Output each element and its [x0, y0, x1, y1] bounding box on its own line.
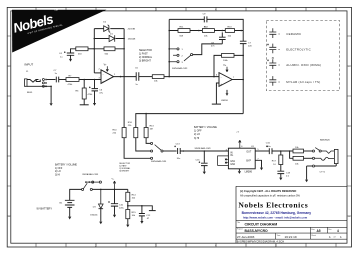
wire R7 to opamp	[79, 79, 101, 81]
svg-text:OUT: OUT	[246, 152, 251, 154]
node feedback rail	[242, 55, 244, 57]
svg-text:J1: J1	[26, 71, 29, 73]
svg-text:2: 2	[99, 68, 101, 70]
svg-text:1N4148: 1N4148	[128, 39, 136, 41]
node 56k row left	[94, 48, 96, 50]
resistor R12tone	[144, 125, 154, 137]
resistor R13	[225, 27, 234, 38]
wire diode row	[94, 38, 124, 40]
svg-text:CIRCUIT DIAGRAM: CIRCUIT DIAGRAM	[245, 223, 278, 227]
svg-text:C15: C15	[196, 160, 201, 162]
wire zener row	[94, 28, 124, 30]
svg-text:10u: 10u	[177, 158, 181, 160]
wire C6 to ground	[94, 91, 96, 103]
capacitor C12	[139, 214, 151, 220]
bus wire to tone resistors	[136, 114, 243, 128]
svg-text:+: +	[220, 82, 222, 86]
wire D3 to ground	[100, 209, 102, 222]
node V+ C10	[114, 189, 116, 191]
zener diode D2 ZD3.9B	[103, 22, 135, 33]
svg-text:R15: R15	[132, 212, 137, 214]
ground bar IC1B	[212, 103, 221, 105]
svg-text:-: -	[103, 72, 104, 76]
svg-text:CERAMIC: CERAMIC	[286, 32, 301, 36]
wire Vref to C12 and ground	[128, 206, 153, 211]
svg-text:47: 47	[147, 218, 150, 220]
svg-text:ZD3.9B: ZD3.9B	[128, 29, 136, 31]
node IC1A output	[120, 76, 122, 78]
svg-text:100u: 100u	[266, 146, 272, 148]
wire C15 down	[203, 151, 205, 163]
ground arrow under D3	[99, 222, 102, 225]
svg-text:IN-: IN-	[230, 155, 233, 157]
wire C7 to R7	[59, 79, 66, 81]
node stage2 row left	[168, 30, 170, 32]
wire R10tone bottom to contact3	[124, 138, 150, 159]
svg-text:=: =	[278, 48, 280, 52]
svg-text:Rev: Rev	[328, 229, 331, 231]
svg-text:BYP: BYP	[246, 161, 251, 163]
node jack sleeve	[50, 86, 52, 88]
svg-text:BATTERY / VOLUME: BATTERY / VOLUME	[55, 163, 77, 166]
svg-text:D3: D3	[93, 207, 97, 209]
svg-text:1M: 1M	[150, 128, 153, 130]
svg-text:470k: 470k	[68, 84, 74, 86]
stage2 resistor row wire	[169, 30, 243, 32]
svg-text:=: =	[278, 32, 280, 36]
svg-text:R16: R16	[128, 122, 133, 124]
input jack BU01	[25, 63, 51, 94]
svg-text:+V: +V	[236, 132, 239, 134]
ground bar under R6	[80, 104, 89, 106]
op-amp IC1B	[216, 73, 235, 102]
svg-text:100k: 100k	[223, 60, 229, 62]
node B	[94, 79, 96, 81]
svg-text:B:\SPBO\MP\MYCRO\DIAGRAM_4.SCH: B:\SPBO\MP\MYCRO\DIAGRAM_4.SCH	[237, 239, 284, 243]
resistor R19	[293, 156, 304, 165]
svg-text:4: 4	[337, 229, 339, 233]
node Vref	[127, 205, 129, 207]
node switch row1 a	[85, 181, 87, 183]
supply arrow battery minus	[68, 217, 71, 220]
V- supply arrow IC1B	[226, 90, 228, 93]
svg-text:=: =	[278, 80, 280, 84]
output jack BU02	[315, 149, 338, 173]
svg-text:1: 1	[340, 235, 342, 239]
node diode row right	[123, 38, 125, 40]
svg-text:27-Jan-2003: 27-Jan-2003	[237, 235, 255, 239]
svg-text:10k: 10k	[228, 35, 232, 37]
svg-text:3) BRIGHT: 3) BRIGHT	[139, 60, 151, 63]
svg-text:R6: R6	[76, 91, 80, 93]
svg-text:V+: V+	[223, 65, 227, 67]
selector switch SW1B contacts	[151, 142, 153, 159]
svg-text:c: c	[348, 65, 350, 68]
svg-text:GN2: GN2	[230, 164, 235, 166]
svg-text:Sheet: Sheet	[311, 234, 316, 237]
node C12	[141, 205, 143, 207]
legend aluminum oxide capacitor symbol	[269, 59, 276, 69]
svg-text:C10: C10	[119, 205, 124, 207]
svg-text:7: 7	[233, 77, 235, 79]
ground arrow bypass	[260, 168, 263, 171]
wire R9 to IC1B	[164, 76, 219, 78]
svg-text:SW1A BAX-CW3: SW1A BAX-CW3	[172, 67, 188, 70]
resistor R9	[152, 75, 164, 83]
svg-text:GN1: GN1	[230, 161, 235, 163]
wire node B down	[94, 80, 96, 89]
legend ceramic capacitor symbol	[269, 28, 276, 38]
ground arrow under jack	[50, 103, 53, 106]
legend mylar capacitor symbol	[269, 76, 276, 86]
svg-text:LM358: LM358	[221, 100, 228, 102]
capacitor C10 stage2 rail	[240, 41, 253, 47]
node row right	[240, 30, 242, 32]
wire node B down to R19	[290, 151, 293, 158]
supply arrow under C4	[70, 55, 72, 59]
svg-text:10k: 10k	[154, 80, 158, 82]
V+ supply flag op-amp IC1A	[104, 64, 109, 71]
svg-text:R14: R14	[132, 195, 137, 197]
ground bar Vref	[149, 210, 156, 212]
svg-text:C7: C7	[54, 70, 58, 72]
capacitor C10p	[108, 189, 124, 209]
svg-text:a: a	[8, 215, 10, 218]
svg-text:IN: IN	[230, 152, 233, 154]
wire jack sleeve row	[315, 164, 337, 166]
svg-text:D1: D1	[110, 33, 114, 35]
svg-text:a: a	[348, 215, 350, 218]
V+ supply flag IC2	[236, 132, 243, 149]
legend electrolytic capacitor symbol	[269, 44, 276, 54]
node diode row left	[94, 38, 96, 40]
text selector legend bottom	[119, 163, 131, 172]
svg-text:All unspecified capacitors in: All unspecified capacitors in pF, resist…	[240, 193, 301, 197]
svg-text:2: 2	[182, 55, 184, 57]
svg-text:ALUMIN. OXID (WIMA): ALUMIN. OXID (WIMA)	[286, 63, 321, 67]
svg-text:C9: C9	[203, 13, 207, 15]
svg-text:C6: C6	[99, 89, 103, 91]
selector switch SW1B pole	[155, 145, 163, 152]
node A	[83, 79, 85, 81]
svg-text:R17: R17	[272, 161, 277, 163]
svg-text:1: 1	[329, 235, 331, 239]
svg-text:10k: 10k	[132, 215, 136, 217]
capacitor C6	[89, 87, 104, 95]
svg-text:22k: 22k	[128, 125, 132, 127]
svg-text:0.1: 0.1	[286, 176, 290, 178]
svg-text:C19: C19	[286, 172, 291, 174]
wire C15 to ground	[203, 166, 205, 172]
ground arrow under C19	[279, 178, 282, 181]
switch SW2A battery contact	[82, 188, 84, 190]
node 56k row right	[123, 48, 125, 50]
svg-text:-: -	[221, 75, 222, 79]
svg-text:10k: 10k	[295, 147, 299, 149]
svg-text:16:21:19: 16:21:19	[285, 235, 297, 239]
node V+ diode	[100, 189, 102, 191]
diode D3	[90, 189, 103, 216]
svg-text:Bornerstrasse 42, 22765 Hambur: Bornerstrasse 42, 22765 Hamburg, Germany	[242, 211, 312, 215]
svg-text:A5: A5	[317, 229, 321, 233]
svg-text:2) LO: 2) LO	[55, 171, 61, 173]
svg-text:V+: V+	[104, 64, 108, 66]
wire R6 to ground	[83, 99, 85, 105]
svg-text:3) BRIGHT: 3) BRIGHT	[119, 170, 130, 172]
node output A	[280, 150, 282, 152]
wire C16 to output resistors	[272, 150, 293, 152]
svg-text:Size: Size	[311, 229, 315, 231]
capacitor C5	[135, 68, 139, 86]
node IC1B minus	[213, 76, 215, 78]
svg-text:ELECTROLYTIC: ELECTROLYTIC	[286, 48, 311, 52]
wire C13 to IC2	[180, 150, 228, 152]
svg-text:10: 10	[273, 164, 276, 166]
wire pole to C13	[163, 150, 177, 152]
ground arrow output	[305, 180, 308, 183]
svg-text:BATTERY / VOLUME: BATTERY / VOLUME	[194, 126, 217, 129]
wire IC1A output	[114, 76, 137, 78]
IC2 ground pin 4	[238, 169, 240, 171]
text battery volume legend mid	[194, 126, 217, 140]
ground arrow under C15	[203, 172, 206, 175]
svg-text:3) HI: 3) HI	[194, 137, 200, 140]
wire IC1B output	[232, 79, 243, 81]
svg-text:LM386: LM386	[245, 170, 253, 173]
wire C12 to ground	[141, 216, 143, 221]
svg-text:1u: 1u	[55, 73, 58, 75]
svg-text:1: 1	[114, 74, 116, 76]
selector switch SW1A contacts	[169, 48, 183, 64]
resistor R11tone	[128, 122, 138, 138]
node switch row1 b	[89, 181, 91, 183]
V+ supply flag IC1B	[223, 65, 228, 72]
resistor R11	[178, 27, 190, 38]
svg-text:C16: C16	[266, 143, 271, 145]
svg-text:U1: U1	[251, 146, 255, 148]
wire jack tip to C7	[47, 79, 56, 81]
wire C12 down	[141, 206, 143, 213]
resistor R12	[202, 27, 214, 38]
svg-text:V+: V+	[112, 179, 115, 181]
svg-text:470k: 470k	[88, 94, 94, 96]
switch row1 contact circles	[92, 181, 94, 183]
capacitor C7	[54, 70, 59, 83]
wire R14 to R15	[127, 202, 129, 210]
svg-text:4k3: 4k3	[78, 54, 82, 56]
node selector contact 1	[168, 48, 170, 50]
wire IC1B plus input to ground	[216, 83, 219, 104]
wire battery minus down	[69, 207, 71, 216]
svg-text:SW1A BAX-CW4: SW1A BAX-CW4	[151, 160, 167, 163]
amplifier IC2 LM386 box	[226, 146, 256, 169]
selector switch SW1A pole	[184, 54, 193, 61]
left feedback rail	[93, 29, 95, 73]
node selector contact 3	[168, 61, 170, 63]
wire R5 to rail	[88, 48, 94, 50]
legend box (dashed)	[266, 21, 339, 91]
resistor 100k	[222, 54, 235, 63]
resistor R18	[293, 147, 304, 153]
svg-text:220: 220	[248, 45, 252, 47]
diode D1 1N4148	[109, 33, 136, 42]
wire R15 to ground	[127, 219, 129, 225]
wire 56k row	[94, 48, 124, 50]
svg-text:47u: 47u	[99, 92, 103, 94]
node IC1B output on rail	[242, 79, 244, 81]
capacitor C13	[174, 143, 181, 160]
resistor R6	[76, 88, 94, 99]
node selector rail bottom	[168, 76, 170, 78]
svg-text:B1: B1	[60, 203, 63, 205]
svg-text:SW2B BAX-CW3: SW2B BAX-CW3	[195, 147, 212, 150]
capacitor C19	[277, 165, 290, 178]
svg-text:1u: 1u	[135, 84, 138, 86]
wire node A down	[83, 80, 85, 89]
bias resistor R5	[76, 47, 88, 56]
wire R18 to switch	[304, 150, 313, 152]
svg-text:Nobels Electronics: Nobels Electronics	[238, 200, 308, 209]
svg-text:3: 3	[182, 62, 184, 64]
switch SW2A lever	[84, 183, 88, 188]
svg-text:BAX(W)20: BAX(W)20	[320, 139, 331, 142]
capacitor C15	[196, 160, 208, 166]
svg-text:=: =	[278, 63, 280, 67]
node bus R13tone	[145, 113, 147, 115]
svg-text:22k: 22k	[113, 133, 117, 135]
wire R19 to switch	[304, 157, 313, 159]
node C13 out	[183, 150, 185, 152]
ground arrow under C6	[93, 103, 96, 106]
right feedback rail	[123, 29, 125, 77]
ground arrow under C12	[140, 221, 143, 224]
svg-text:C7: C7	[248, 42, 252, 44]
svg-text:C5: C5	[135, 68, 139, 70]
svg-text:Title: Title	[237, 221, 240, 224]
svg-text:INPUT: INPUT	[25, 63, 34, 67]
selector rail	[168, 19, 170, 76]
ground arrow under C10p	[113, 215, 116, 218]
op-amp IC1A	[99, 68, 117, 83]
svg-text:BASS-MYCRO: BASS-MYCRO	[245, 229, 269, 233]
svg-text:220u: 220u	[119, 208, 125, 210]
stage2 output rail	[242, 31, 244, 114]
battery B1	[37, 200, 75, 210]
svg-text:56k: 56k	[105, 54, 109, 56]
wire C10p to ground	[114, 206, 116, 215]
svg-text:Time: Time	[277, 235, 281, 237]
resistor R15	[126, 210, 137, 219]
wire rail to R14	[127, 189, 129, 192]
ground arrow under R15	[126, 225, 129, 228]
node row R12-R13	[222, 30, 224, 32]
wire to ground arrow	[306, 166, 308, 180]
wire minus input IC1A	[94, 72, 101, 74]
capacitor C9	[203, 13, 207, 28]
svg-text:9V BATTERY: 9V BATTERY	[37, 206, 53, 210]
text battery volume legend left	[55, 163, 77, 176]
svg-text:1: 1	[182, 49, 184, 51]
svg-text:47n: 47n	[211, 46, 215, 48]
node row R11-R12	[198, 30, 200, 32]
ground arrow IC2	[238, 171, 241, 174]
svg-text:of: of	[334, 237, 336, 239]
logo black triangle	[12, 10, 107, 53]
svg-text:CTT1: CTT1	[320, 172, 326, 174]
V+ supply flag rail	[112, 179, 116, 190]
svg-text:1) OFF: 1) OFF	[194, 130, 202, 133]
wire R5 left corner	[71, 49, 76, 53]
IC2 bypass pin wire	[255, 160, 261, 167]
resistor R8 56k	[104, 47, 115, 56]
svg-text:http://www.nobels.com - emai: http://www.nobels.com - email: info@nobe…	[243, 216, 308, 220]
resistor R10tone	[113, 128, 127, 138]
wire pole to C8 bottom	[193, 44, 223, 55]
wire switch row1	[86, 181, 99, 183]
capacitor C16	[266, 143, 272, 154]
svg-text:1) OFF: 1) OFF	[55, 168, 63, 170]
wire contact3 to ground	[307, 165, 313, 167]
svg-text:c: c	[8, 65, 10, 68]
IC2 nc pin stubs	[225, 159, 228, 164]
wire C5 to R9	[139, 76, 153, 78]
svg-text:10k: 10k	[204, 35, 208, 37]
wire battery plus to switch	[70, 189, 82, 200]
svg-text:SW2A BAX-CW3: SW2A BAX-CW3	[82, 173, 99, 176]
stage2 top loop wire	[169, 19, 243, 30]
text selector legend top	[139, 49, 153, 63]
svg-text:R10: R10	[113, 130, 118, 132]
wire IC2 out	[255, 150, 269, 152]
svg-text:R13: R13	[150, 125, 155, 127]
capacitor C4	[59, 51, 74, 58]
output switch contacts	[312, 148, 321, 167]
V+ rail wire	[92, 188, 127, 190]
resistor R17	[272, 151, 283, 166]
capacitor C8	[211, 32, 226, 47]
svg-text:C13: C13	[176, 143, 181, 145]
svg-text:2) LO: 2) LO	[194, 133, 200, 136]
node C15 tap	[204, 150, 206, 152]
wire R12tone bottom to contact1	[146, 138, 150, 144]
feedback resistor R14 100k wire	[214, 55, 243, 76]
svg-text:Project: Project	[237, 228, 243, 231]
svg-text:(c) Copyright 1997 - ALL RIGHT: (c) Copyright 1997 - ALL RIGHTS RESERVED	[240, 189, 296, 193]
wire R11tone bottom to contact2	[136, 138, 151, 151]
wire jack sleeve down	[50, 86, 52, 103]
svg-text:BU01: BU01	[27, 92, 33, 94]
svg-text:MYLAR (All caps / TS): MYLAR (All caps / TS)	[286, 80, 320, 84]
svg-text:C12: C12	[146, 215, 151, 217]
svg-text:10k: 10k	[132, 198, 136, 200]
svg-text:6: 6	[216, 74, 218, 76]
IC2 gain pins bracket	[218, 156, 229, 166]
logo Nobels script text	[11, 7, 64, 38]
svg-text:3) HI: 3) HI	[55, 175, 60, 177]
svg-text:10k: 10k	[295, 163, 299, 165]
resistor R14	[126, 192, 137, 201]
svg-text:D2: D2	[103, 22, 107, 24]
switch row2 contact circle	[90, 188, 92, 190]
svg-text:1u: 1u	[60, 56, 63, 58]
title block	[236, 186, 347, 243]
node output B	[289, 150, 291, 152]
svg-text:6k8: 6k8	[180, 35, 184, 37]
wire output rail down to tone section	[123, 77, 125, 128]
svg-text:1N4001: 1N4001	[90, 214, 98, 216]
svg-text:C4: C4	[59, 53, 63, 55]
resistor R7	[66, 76, 79, 87]
